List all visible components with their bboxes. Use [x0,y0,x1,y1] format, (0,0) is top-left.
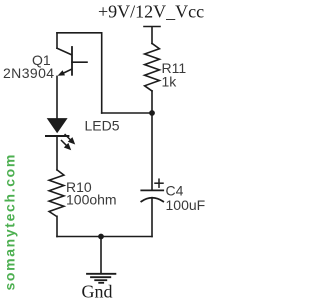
ground [87,237,115,283]
svg-text:2N3904: 2N3904 [3,65,54,81]
wire corner vertical up [101,33,103,113]
wire R10 to bottom rail [56,216,58,236]
ground bar 1 [87,273,115,275]
bottom wire [57,236,152,238]
node junction dot [149,110,155,116]
top plate [141,189,163,191]
light arrow 1 [65,135,75,145]
Vcc terminal bar [144,26,160,28]
resistor R10 [49,170,64,216]
emitter diagonal [62,69,72,74]
wire emitter to LED [56,76,58,118]
svg-text:Gnd: Gnd [82,282,113,300]
emitter arrowhead [58,70,66,76]
svg-text:1k: 1k [162,73,178,89]
ground bar 2 [91,276,110,278]
resistor R11 [145,43,160,91]
base bar [71,47,73,75]
svg-text:+9V/12V_Vcc: +9V/12V_Vcc [98,2,204,22]
transistor Q1 [57,33,87,76]
wire LED to R10 [56,136,58,170]
collector stub [56,33,58,48]
collector diagonal [57,48,72,55]
wire R11 to node [151,91,153,113]
ground junction dot [98,234,104,240]
wire C4 to bottom rail [151,198,153,237]
plus sign [155,179,163,187]
wire Vcc bar to R11 [151,27,153,43]
LED LED5 [46,118,75,150]
ground stem [100,237,102,273]
light arrow 2 [62,141,72,151]
ground bar 4 [99,282,103,284]
capacitor C4 [141,179,163,201]
wire node to C4 [151,113,153,190]
svg-text:100uF: 100uF [166,197,206,213]
svg-text:LED5: LED5 [85,118,120,134]
svg-text:somanytech.com: somanytech.com [2,153,18,290]
ground bar 3 [95,279,106,281]
wire top horizontal to collector [57,32,102,34]
curved bottom plate [141,198,163,202]
wire node to corner (horizontal) [102,112,152,114]
base lead [72,61,87,63]
svg-text:100ohm: 100ohm [66,192,117,208]
LED cathode bar [46,135,68,137]
LED anode triangle [47,118,68,133]
